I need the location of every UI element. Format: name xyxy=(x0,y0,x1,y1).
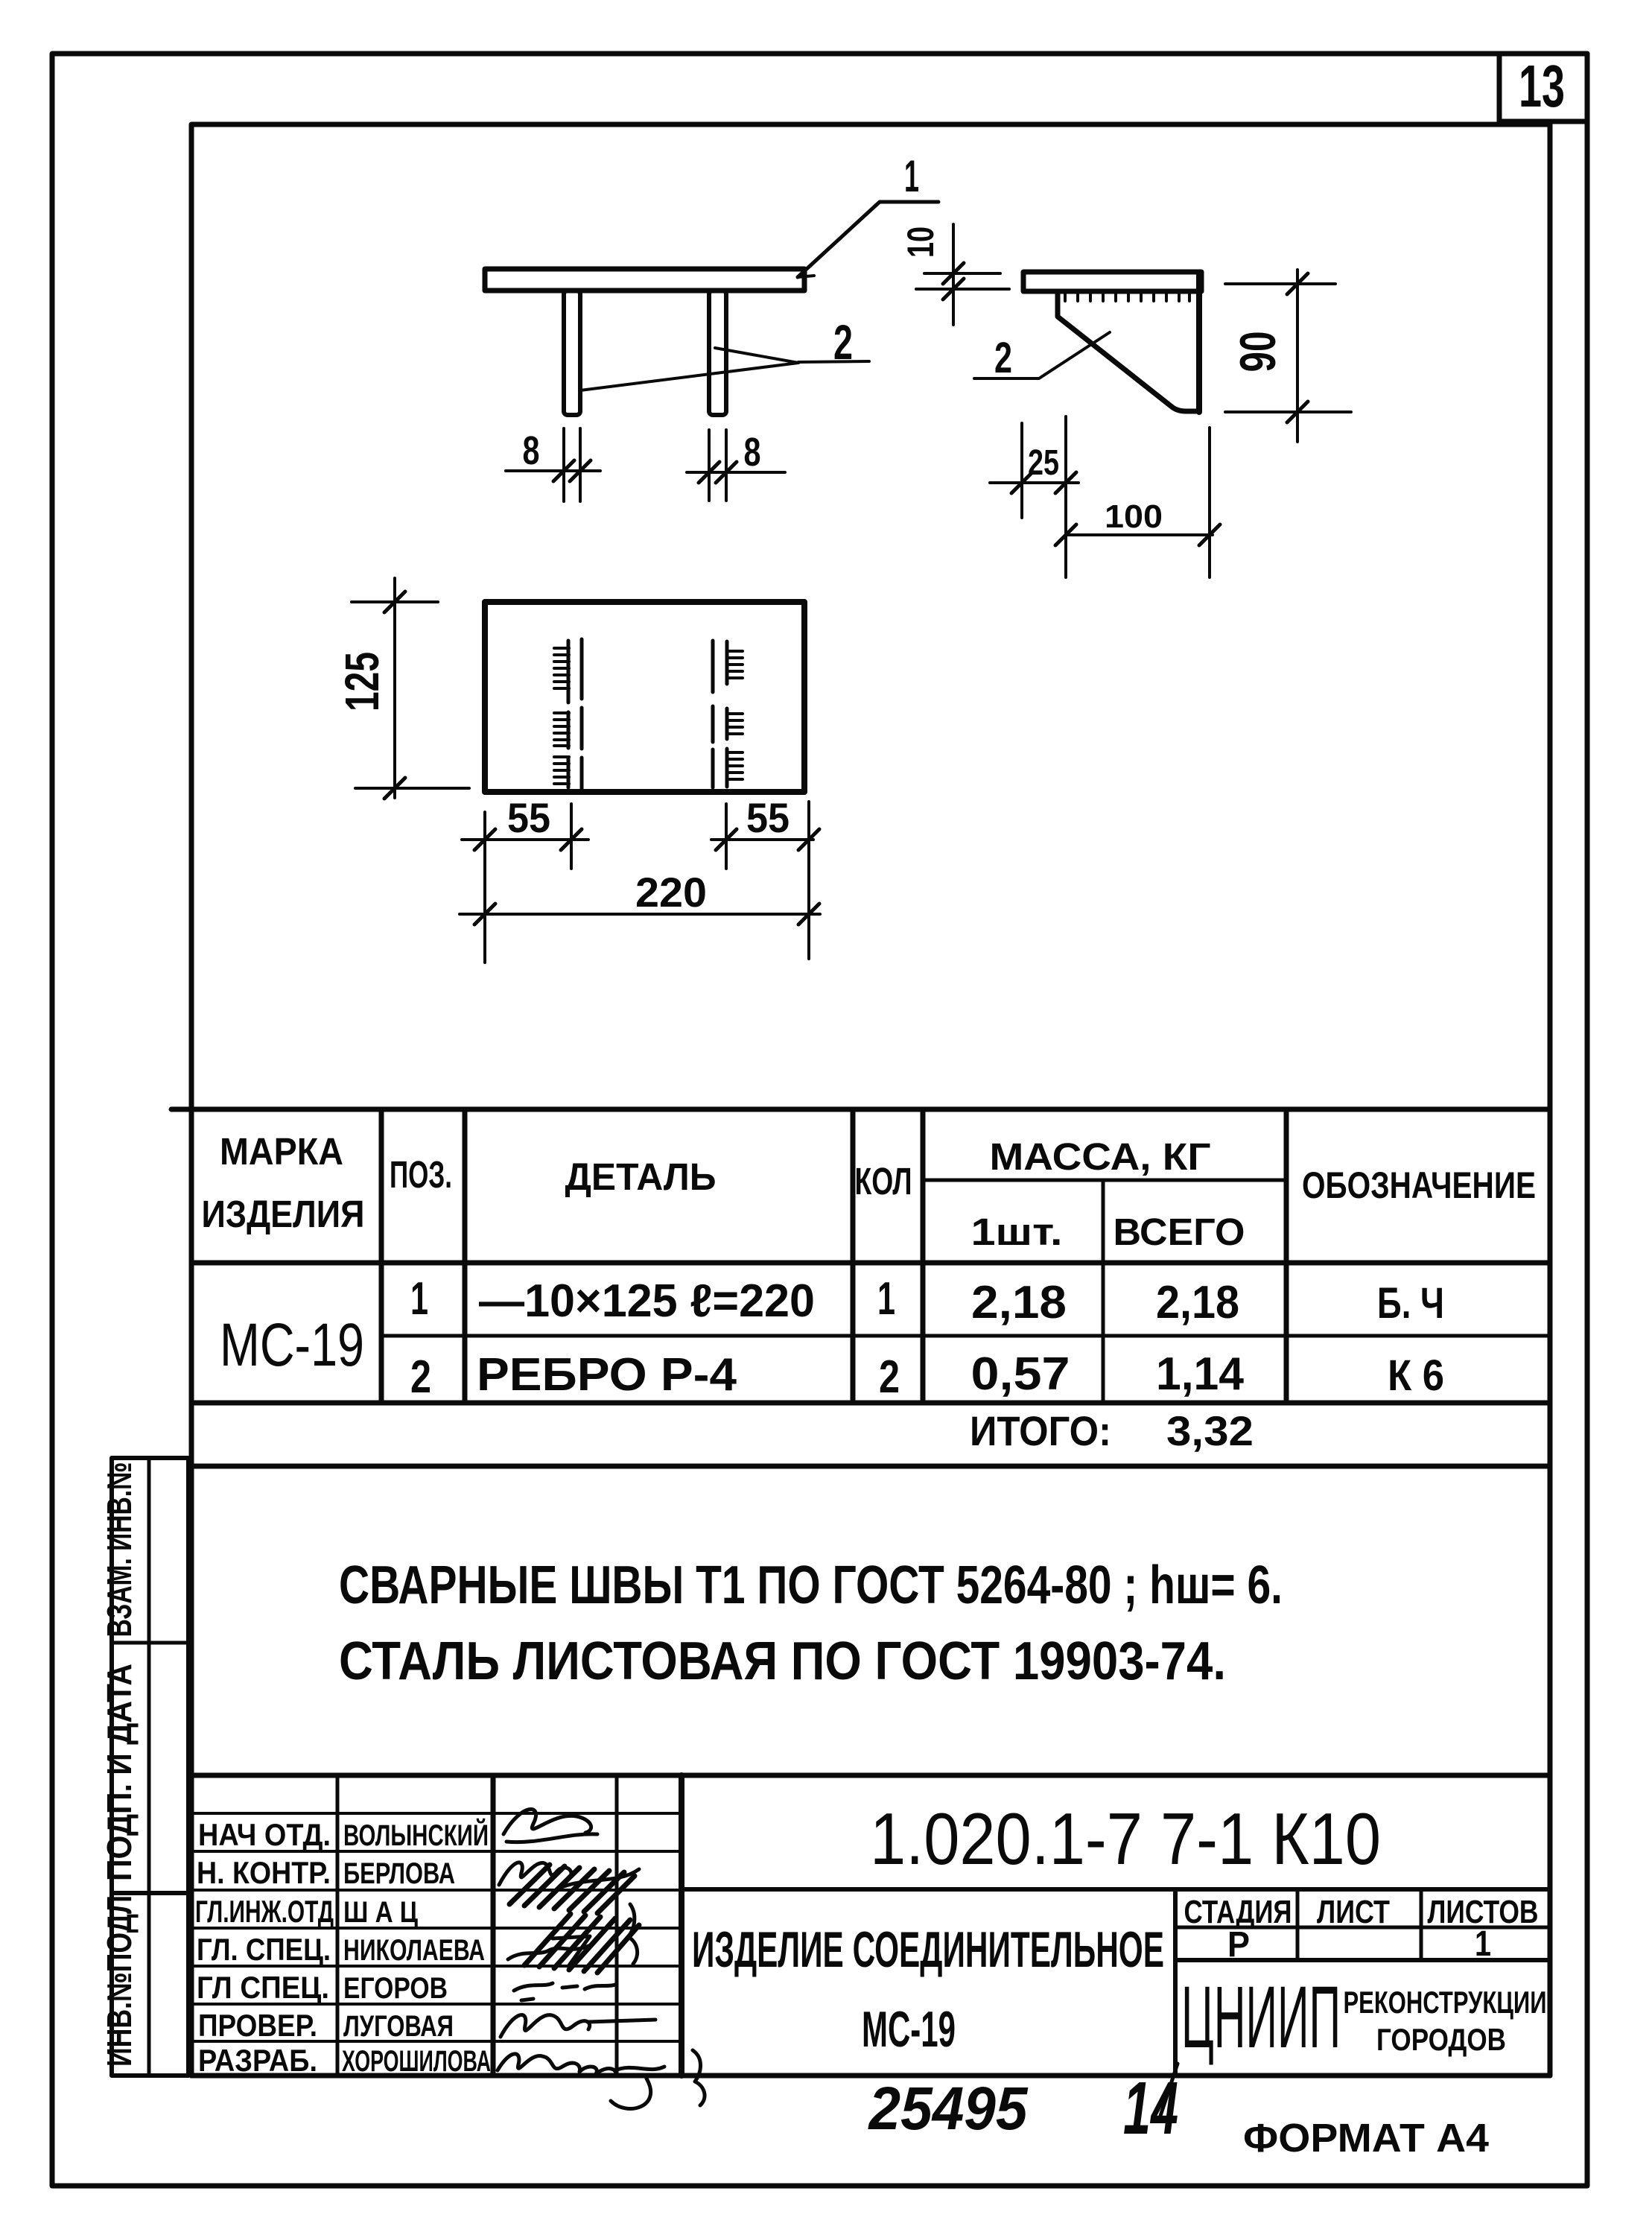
svg-text:МАРКА: МАРКА xyxy=(220,1130,343,1173)
svg-text:НИКОЛАЕВА: НИКОЛАЕВА xyxy=(343,1934,485,1967)
dimension 8 right xyxy=(687,430,785,501)
svg-text:1: 1 xyxy=(904,151,919,201)
svg-text:КОЛ: КОЛ xyxy=(855,1160,912,1202)
signature Берлова xyxy=(499,1862,639,1887)
svg-text:2: 2 xyxy=(833,314,853,370)
plate item 1 front view xyxy=(485,269,804,291)
svg-text:Р: Р xyxy=(1227,1925,1250,1965)
svg-text:Н. КОНТР.: Н. КОНТР. xyxy=(197,1855,331,1890)
svg-text:ГОРОДОВ: ГОРОДОВ xyxy=(1376,2022,1506,2057)
leader lines item 2 front view xyxy=(580,348,869,390)
svg-text:ГЛ.ИНЖ.ОТД: ГЛ.ИНЖ.ОТД xyxy=(195,1894,334,1929)
svg-text:ЛУГОВАЯ: ЛУГОВАЯ xyxy=(343,2010,454,2043)
svg-text:55: 55 xyxy=(507,794,550,841)
svg-text:Ш А Ц: Ш А Ц xyxy=(343,1896,418,1929)
svg-text:ВОЛЫНСКИЙ: ВОЛЫНСКИЙ xyxy=(343,1818,489,1852)
weld hatch right xyxy=(728,651,743,779)
page number box xyxy=(1499,54,1587,121)
signature Волынский xyxy=(503,1809,597,1842)
rib left front view xyxy=(564,291,580,415)
rib right front view xyxy=(709,291,726,415)
svg-text:ПРОВЕР.: ПРОВЕР. xyxy=(198,2008,317,2043)
svg-text:2: 2 xyxy=(410,1351,431,1403)
hidden rib left dashed xyxy=(568,639,582,789)
hidden rib right dashed xyxy=(713,641,727,787)
signature Луговая xyxy=(501,2015,655,2037)
svg-text:1шт.: 1шт. xyxy=(971,1211,1063,1253)
svg-text:ОБОЗНАЧЕНИЕ: ОБОЗНАЧЕНИЕ xyxy=(1302,1164,1536,1206)
svg-text:ИТОГО:: ИТОГО: xyxy=(970,1407,1111,1454)
svg-text:ФОРМАТ А4: ФОРМАТ А4 xyxy=(1243,2116,1489,2160)
svg-text:ПОЗ.: ПОЗ. xyxy=(390,1153,452,1196)
svg-text:55: 55 xyxy=(746,794,790,841)
svg-text:НАЧ ОТД.: НАЧ ОТД. xyxy=(198,1817,331,1852)
svg-text:125: 125 xyxy=(335,652,389,711)
svg-text:ЦНИИП: ЦНИИП xyxy=(1181,1968,1341,2067)
svg-text:МС-19: МС-19 xyxy=(862,2001,956,2058)
svg-text:13: 13 xyxy=(1519,53,1565,119)
svg-text:25: 25 xyxy=(1028,443,1059,483)
dimension 25 xyxy=(990,416,1078,577)
svg-text:25495: 25495 xyxy=(868,2075,1029,2143)
leader line item 2 side view xyxy=(974,332,1110,378)
leader line item 1 xyxy=(798,202,938,277)
svg-text:ИЗДЕЛИЕ СОЕДИНИТЕЛЬНОЕ: ИЗДЕЛИЕ СОЕДИНИТЕЛЬНОЕ xyxy=(692,1921,1164,1978)
svg-text:14: 14 xyxy=(1123,2067,1178,2150)
dimension 90 xyxy=(1225,270,1351,442)
svg-text:2: 2 xyxy=(879,1351,900,1403)
title block grid xyxy=(191,1775,1550,2076)
svg-text:Б. Ч: Б. Ч xyxy=(1377,1279,1444,1328)
weld hatch left xyxy=(554,648,569,784)
svg-text:ВСЕГО: ВСЕГО xyxy=(1113,1211,1245,1253)
svg-text:К 6: К 6 xyxy=(1388,1351,1444,1400)
svg-text:СВАРНЫЕ ШВЫ Т1 ПО ГОСТ 526: СВАРНЫЕ ШВЫ Т1 ПО ГОСТ 5264-80 ; hш= 6. xyxy=(339,1556,1283,1615)
svg-text:1.020.1-7 7-1 К10: 1.020.1-7 7-1 К10 xyxy=(870,1798,1381,1880)
svg-text:1: 1 xyxy=(410,1273,428,1325)
signature Хорошилова xyxy=(498,2050,705,2108)
signature Шац hatch xyxy=(509,1865,639,1973)
svg-text:8: 8 xyxy=(744,430,761,475)
svg-text:ГЛ. СПЕЦ.: ГЛ. СПЕЦ. xyxy=(197,1932,331,1967)
parts table grid xyxy=(171,1109,1550,1466)
svg-text:ИНВ.№ПОДЛ: ИНВ.№ПОДЛ xyxy=(100,1895,139,2067)
svg-text:СТАЛЬ ЛИСТОВАЯ ПО ГОСТ 1: СТАЛЬ ЛИСТОВАЯ ПО ГОСТ 19903-74. xyxy=(339,1632,1226,1691)
svg-text:2,18: 2,18 xyxy=(1156,1277,1239,1328)
svg-text:2: 2 xyxy=(994,334,1012,382)
svg-text:ИЗДЕЛИЯ: ИЗДЕЛИЯ xyxy=(202,1193,365,1235)
svg-text:БЕРЛОВА: БЕРЛОВА xyxy=(343,1857,455,1890)
svg-text:ПОДП. И ДАТА: ПОДП. И ДАТА xyxy=(100,1664,139,1881)
svg-text:РАЗРАБ.: РАЗРАБ. xyxy=(198,2043,317,2078)
svg-text:220: 220 xyxy=(635,869,707,916)
svg-text:МС-19: МС-19 xyxy=(220,1311,364,1379)
svg-text:МАССА, КГ: МАССА, КГ xyxy=(990,1135,1211,1178)
dimension 8 left xyxy=(506,428,600,501)
dimension 125 xyxy=(352,578,469,799)
svg-text:ДЕТАЛЬ: ДЕТАЛЬ xyxy=(565,1155,717,1198)
plate item 1 side view xyxy=(1023,272,1201,412)
svg-text:3,32: 3,32 xyxy=(1166,1407,1254,1454)
weld ticks side view xyxy=(1065,292,1189,301)
svg-text:ГЛ СПЕЦ.: ГЛ СПЕЦ. xyxy=(197,1970,329,2005)
svg-text:1: 1 xyxy=(877,1273,895,1325)
plate plan view xyxy=(485,602,804,792)
svg-text:—10×125 ℓ=220: —10×125 ℓ=220 xyxy=(479,1275,815,1327)
svg-text:РЕКОНСТРУКЦИИ: РЕКОНСТРУКЦИИ xyxy=(1344,1985,1547,2020)
dimension 220 xyxy=(460,802,820,959)
svg-text:2,18: 2,18 xyxy=(971,1277,1067,1328)
dimension 55 right xyxy=(711,804,819,869)
svg-text:1,14: 1,14 xyxy=(1156,1348,1245,1400)
signature Николаева xyxy=(508,1936,590,1965)
svg-text:100: 100 xyxy=(1105,498,1163,535)
dimension 55 left xyxy=(462,804,588,963)
dimension 100 xyxy=(1055,428,1220,577)
dimension 10 xyxy=(916,224,1009,325)
inner drawing frame xyxy=(191,121,1550,2076)
svg-text:1: 1 xyxy=(1475,1924,1491,1964)
svg-text:ХОРОШИЛОВА: ХОРОШИЛОВА xyxy=(342,2045,491,2078)
rib item 2 side view xyxy=(1058,291,1196,411)
svg-text:90: 90 xyxy=(1230,332,1286,372)
svg-text:ВЗАМ. ИНВ.№: ВЗАМ. ИНВ.№ xyxy=(100,1462,139,1638)
svg-text:РЕБРО Р-4: РЕБРО Р-4 xyxy=(477,1349,737,1401)
svg-text:0,57: 0,57 xyxy=(971,1348,1070,1400)
svg-text:ЕГОРОВ: ЕГОРОВ xyxy=(343,1972,448,2005)
sidebar grid xyxy=(112,1458,191,2076)
svg-text:ЛИСТ: ЛИСТ xyxy=(1317,1894,1390,1930)
signature Егоров xyxy=(514,1983,615,2000)
svg-text:10: 10 xyxy=(900,226,941,258)
svg-text:8: 8 xyxy=(523,428,540,473)
